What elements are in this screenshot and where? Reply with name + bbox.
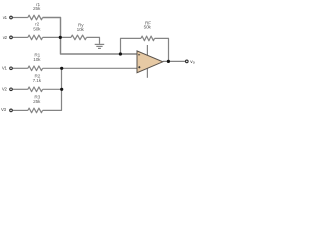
svg-text:50k: 50k bbox=[33, 26, 41, 31]
svg-text:7.1k: 7.1k bbox=[33, 78, 42, 83]
svg-text:V3: V3 bbox=[1, 107, 7, 112]
svg-text:50k: 50k bbox=[144, 25, 152, 30]
svg-text:25k: 25k bbox=[33, 99, 41, 104]
svg-text:25k: 25k bbox=[33, 6, 41, 11]
svg-text:10k: 10k bbox=[33, 57, 41, 62]
svg-text:o: o bbox=[193, 61, 195, 65]
svg-text:10k: 10k bbox=[77, 27, 85, 32]
